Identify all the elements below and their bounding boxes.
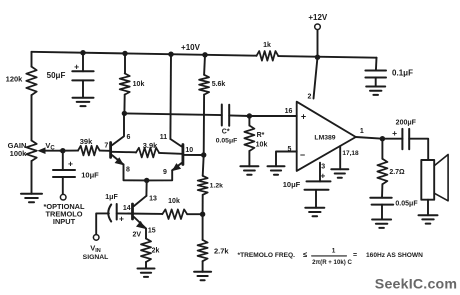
resistor 1k on rail [257, 42, 279, 61]
label optional tremolo input [43, 202, 85, 226]
watermark SeekIC.com [375, 277, 457, 293]
svg-text:10k: 10k [256, 141, 268, 148]
wire output pin1 [356, 128, 383, 139]
svg-text:6: 6 [127, 134, 131, 141]
svg-text:+: + [320, 171, 325, 181]
label Vin signal [83, 244, 109, 262]
svg-text:2π(R + 10k) C: 2π(R + 10k) C [312, 259, 352, 266]
svg-text:SeekIC.com: SeekIC.com [375, 277, 457, 293]
resistor 2k [141, 239, 159, 263]
svg-text:3.9k: 3.9k [143, 141, 158, 150]
capacitor 0.1uF [365, 68, 413, 77]
wire 10uF pin3 to ground [315, 190, 317, 208]
resistor 10k left [120, 73, 145, 94]
svg-text:100k: 100k [10, 149, 28, 158]
wire R* to ground [248, 151, 250, 166]
wire 120k to pot [31, 95, 33, 140]
wire 1.2k to divider node [202, 195, 204, 214]
transistor Q1 collector [112, 113, 131, 145]
wire +12V stem [317, 30, 319, 58]
wire node to pin16 [249, 108, 296, 116]
node Vc [45, 141, 65, 153]
wire Vin to 1uF [96, 213, 109, 234]
ground under pin3 cap [305, 208, 324, 216]
wire C* to R* node [229, 114, 249, 117]
resistor 1.2k [198, 176, 223, 195]
wire rail to Q2 collector [169, 54, 172, 139]
wire 2.7k to ground [202, 261, 204, 272]
wire 50uF to ground [82, 80, 84, 97]
wire divider to 2.7k [202, 214, 204, 240]
ground under R* [240, 166, 258, 174]
ground under speaker [419, 215, 438, 223]
svg-text:1μF: 1μF [105, 194, 118, 201]
capacitor 50uF [47, 61, 94, 80]
wire speaker to ground [427, 200, 429, 216]
transistor Q3 collector [134, 196, 146, 206]
wire rail to 5.6k [203, 55, 206, 75]
capacitor 10uF tremolo [53, 159, 99, 180]
resistor 2.7ohm [377, 159, 405, 184]
pot wiper arrow [37, 147, 60, 154]
svg-text:3: 3 [321, 163, 325, 170]
wire 39k to Q1 base [100, 150, 110, 152]
capacitor 1uF input [105, 194, 124, 224]
wire output to 200uF [382, 138, 402, 140]
wire Vc to 39k [60, 150, 78, 152]
wire rail to 50uF [82, 53, 84, 72]
label pin10 [185, 147, 193, 154]
svg-text:8: 8 [126, 166, 130, 173]
ground pins 17,18 [331, 169, 348, 177]
resistor 120k [6, 67, 37, 96]
svg-text:10k: 10k [133, 81, 145, 88]
wire 0.1uF to ground [375, 78, 377, 87]
op-amp U1 LM389 [297, 102, 356, 171]
svg-text:+: + [301, 112, 306, 122]
wire rail to 0.1uF [375, 58, 378, 71]
wire Vc to 10uF [62, 151, 64, 170]
node rail-Q2collector [168, 52, 173, 57]
capacitor 0.05uF zobel [370, 198, 418, 208]
svg-text:+12V: +12V [308, 13, 328, 22]
svg-text:0.1μF: 0.1μF [392, 68, 413, 77]
svg-text:1k: 1k [263, 42, 271, 49]
svg-text:14: 14 [123, 205, 131, 212]
capacitor 200uF [392, 119, 417, 149]
ground under pot [21, 194, 42, 202]
capacitor 10uF pin3 [283, 180, 331, 190]
svg-text:INPUT: INPUT [53, 217, 76, 226]
transistor Q2 collector [160, 134, 182, 146]
ground under 2.7k [194, 272, 211, 280]
ground under 50uF [73, 98, 94, 106]
svg-text:11: 11 [160, 134, 168, 141]
node output [380, 136, 385, 141]
wire pin3 [320, 163, 325, 182]
svg-text:0.05μF: 0.05μF [395, 201, 418, 208]
resistor 10k bias [162, 198, 187, 219]
svg-text:5: 5 [288, 146, 292, 153]
potentiometer GAIN 100k [8, 141, 37, 162]
svg-text:≤: ≤ [303, 250, 307, 259]
wire C*R* node to resistor [248, 116, 250, 126]
svg-text:13: 13 [149, 195, 157, 202]
svg-text:120k: 120k [6, 75, 24, 84]
wire Q1 base to 3.9k [112, 151, 136, 154]
node emitter junction [144, 178, 149, 183]
wire base through [117, 205, 163, 214]
svg-text:=: = [353, 252, 357, 259]
ground under 0.1uF [366, 87, 385, 95]
note tremolo frequency formula [238, 247, 424, 265]
wire 2k to ground [145, 262, 147, 269]
wire Q3 emitter to 2k [145, 229, 147, 239]
node rail-5.6k [202, 52, 207, 57]
svg-text:2.7k: 2.7k [214, 246, 229, 255]
node Q1 collector junction [122, 111, 127, 116]
wire emitters to Q3 collector [146, 180, 157, 202]
svg-text:10μF: 10μF [283, 180, 301, 189]
label +10V [181, 43, 201, 52]
svg-text:*TREMOLO FREQ.: *TREMOLO FREQ. [238, 252, 296, 259]
svg-text:10: 10 [185, 147, 193, 154]
wire 10k to divider node [187, 213, 202, 215]
svg-text:C*: C* [222, 129, 230, 136]
wire output to 2.7ohm [381, 139, 383, 159]
wire Q1 emitter elbow [124, 165, 147, 181]
wire Q2 base node to 1.2k [203, 155, 204, 176]
svg-text:50μF: 50μF [47, 71, 66, 80]
speaker [421, 155, 448, 201]
resistor 2.7k [198, 240, 230, 261]
wire node to C* [124, 113, 221, 115]
svg-text:160Hz AS SHOWN: 160Hz AS SHOWN [366, 252, 423, 259]
ground pin5 [268, 166, 285, 174]
transistor Q1 emitter [112, 155, 130, 173]
svg-text:1: 1 [332, 247, 336, 254]
node C*-R*-pin16 [247, 113, 252, 118]
transistor Q1 base bar [109, 143, 112, 158]
wire pin5 [276, 146, 297, 166]
wire +V rail right segment [278, 56, 376, 58]
svg-text:15: 15 [148, 227, 156, 234]
svg-text:5.6k: 5.6k [212, 81, 226, 88]
wire Q2 emitter elbow [147, 170, 173, 180]
svg-text:2V: 2V [133, 232, 142, 239]
svg-text:+: + [74, 61, 79, 71]
svg-text:−: − [300, 150, 305, 160]
wire 5.6k to Q2 base node [203, 95, 205, 155]
svg-text:+10V: +10V [181, 43, 201, 52]
transistor Q2 base bar [181, 145, 184, 165]
node Q2 base junction [201, 152, 206, 157]
wire 0.05uF to ground [381, 205, 383, 220]
svg-text:+: + [392, 128, 397, 138]
node +12V rail [315, 55, 320, 60]
wire 3.9k to Q2 base [159, 152, 182, 155]
svg-text:17,18: 17,18 [342, 150, 359, 157]
svg-text:7: 7 [104, 142, 108, 149]
svg-text:10μF: 10μF [81, 171, 99, 180]
svg-text:2k: 2k [152, 248, 160, 255]
ground under zobel [372, 220, 391, 228]
svg-text:10k: 10k [168, 198, 180, 205]
svg-text:9: 9 [163, 169, 167, 176]
transistor Q3 base bar [131, 204, 134, 219]
resistor 39k [78, 137, 100, 155]
svg-text:200μF: 200μF [396, 119, 417, 126]
wire pin2 [308, 57, 318, 100]
wire pot to ground [31, 161, 33, 194]
transistor Q3 emitter [133, 217, 156, 239]
wire 2.7ohm to 0.05uF [381, 184, 383, 198]
svg-text:1: 1 [360, 128, 364, 135]
svg-text:0.05μF: 0.05μF [216, 137, 238, 144]
svg-text:2: 2 [308, 94, 312, 101]
svg-text:+: + [68, 159, 73, 169]
resistor R* 10k [244, 126, 267, 152]
wire 200uF to speaker [409, 139, 428, 160]
resistor 3.9k [136, 141, 159, 158]
wire left branch top [31, 52, 33, 67]
wire 10uF to terminal [62, 177, 64, 194]
svg-text:SIGNAL: SIGNAL [83, 254, 109, 261]
wire rail to 10k [124, 53, 126, 73]
svg-text:2.7Ω: 2.7Ω [389, 169, 405, 176]
wire Q2 base [184, 154, 204, 156]
node divider [200, 212, 205, 217]
capacitor C* 0.05uF [216, 105, 238, 145]
transistor Q2 emitter [163, 163, 182, 176]
svg-text:LM389: LM389 [314, 135, 335, 142]
svg-text:16: 16 [285, 108, 293, 115]
label pin7 [104, 142, 108, 149]
svg-text:+: + [119, 213, 124, 223]
terminal +12V [308, 13, 328, 30]
wire +V rail left segment [32, 52, 257, 56]
resistor 5.6k [199, 75, 225, 95]
node rail-10k [122, 51, 127, 56]
ground under 2k [138, 269, 155, 277]
wire 10k to node [123, 95, 125, 114]
svg-text:R*: R* [257, 132, 265, 139]
wire pins 17,18 [340, 146, 359, 169]
svg-text:39k: 39k [80, 137, 93, 146]
svg-text:1.2k: 1.2k [210, 182, 223, 189]
terminal tremolo input [60, 194, 66, 200]
terminal Vin [93, 235, 99, 241]
node rail-50uF [80, 50, 85, 55]
